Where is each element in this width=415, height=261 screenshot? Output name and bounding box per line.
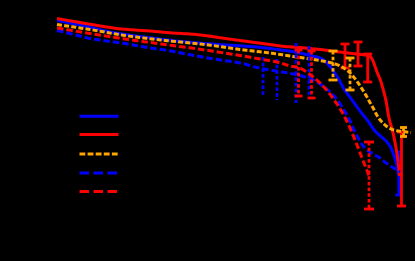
legend sample: red dashed — [80, 190, 119, 193]
error bar: orange dashed series at x=350 — [349, 58, 352, 90]
curve: blue solid series — [57, 21, 399, 179]
legend sample: red solid — [80, 133, 119, 136]
legend sample: blue dashed — [80, 172, 119, 175]
legend sample: blue solid — [80, 115, 119, 118]
error bar: red solid series at x=358 — [357, 42, 360, 66]
error bar: red solid series at x=367.7 — [366, 54, 369, 82]
error bar: orange dashed series final point x=403.5 — [402, 128, 405, 137]
error bar: red solid series final point x=401.5 — [400, 132, 403, 206]
curve: red solid series — [57, 19, 400, 177]
curve: red dashed series — [57, 28, 369, 176]
legend sample: orange dashed — [80, 153, 119, 156]
error bar: red dashed series final point x=369 — [368, 142, 371, 209]
error bar: blue dashed series at x=296 — [295, 43, 298, 103]
error bar: blue solid series final point x=398.8 — [397, 152, 400, 195]
error bar: red dashed series at x=311.5 — [310, 51, 313, 98]
error bar: blue dashed series at x=277 — [276, 59, 279, 100]
error bar: orange dashed series at x=333 — [332, 51, 335, 80]
error bar: blue dashed series at x=309 — [308, 46, 311, 99]
curve: orange dashed series — [57, 25, 411, 133]
error bar: blue dashed series at x=263 — [262, 57, 265, 97]
error bar: red dashed series at x=298.5 — [297, 50, 300, 96]
curve: blue dashed series — [57, 31, 400, 173]
error bar: red solid series at x=345 — [344, 44, 347, 68]
